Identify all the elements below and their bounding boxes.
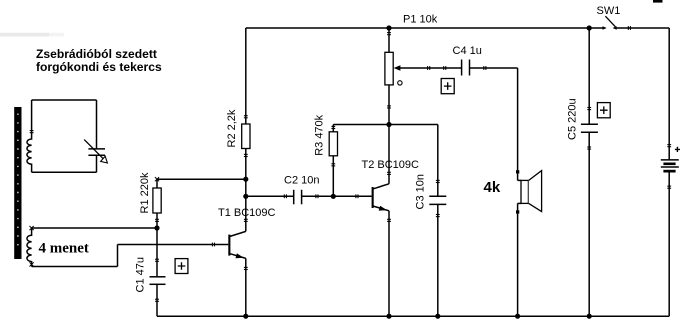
coil L2 (4 menet) [27,226,34,267]
faint scan artifact band [0,33,49,37]
svg-text:SW1: SW1 [597,5,621,17]
battery B1 [661,28,680,316]
svg-text:C1 47u: C1 47u [135,257,147,292]
polarity box C5 [597,103,610,118]
transistor T2 BC109C [333,125,391,317]
svg-text:C2 10n: C2 10n [284,175,319,187]
pin ticks T1 base [211,243,213,247]
potentiometer P1 10k [385,28,461,125]
node C5 / SW1 [587,25,592,30]
node R1 bottom / L2 / C1 [154,225,159,230]
resistor R2 2,2k [242,28,250,231]
node speaker / rail [515,314,520,319]
node T2 base / C2 / R3 [331,194,336,199]
capacitor C2 10n [246,190,333,205]
node collector/R1 [243,177,248,182]
node C3 / rail [435,314,440,319]
svg-text:C4 1u: C4 1u [453,45,482,57]
wire R1 top to collector line [157,178,246,180]
wire R3 top to node B [333,124,389,126]
svg-text:4k: 4k [484,179,501,196]
switch SW1 [589,16,669,30]
capacitor C3 10n [429,125,446,317]
svg-text:P1 10k: P1 10k [403,14,438,26]
svg-text:Zsebrádióból szedett: Zsebrádióból szedett [36,47,157,61]
svg-text:4 menet: 4 menet [39,241,89,257]
node P1 top [386,25,391,30]
svg-text:R3 470k: R3 470k [313,114,325,155]
wire top supply rail [246,27,589,29]
capacitor C5 220u [581,28,598,316]
svg-text:forgókondi és tekercs: forgókondi és tekercs [36,60,162,74]
svg-text:R2 2,2k: R2 2,2k [226,109,238,147]
wire L2 bottom step to T1 base [32,245,229,267]
svg-text:R1 220k: R1 220k [139,172,151,213]
wire tuned loop [32,100,97,172]
resistor R3 470k [329,125,337,197]
variable capacitor CV [84,140,107,163]
polarity box C4 [441,79,454,94]
svg-text:C5 220u: C5 220u [567,98,579,140]
ferrite rod antenna [14,107,21,259]
coil L1 (tuning coil) [27,100,34,172]
capacitor C1 47u [150,228,166,316]
wire C4 to speaker [517,68,519,180]
wire node B to C3 [389,124,438,126]
capacitor C4 1u [462,60,518,76]
node T1 emitter / rail [243,314,248,319]
svg-text:C3 10n: C3 10n [414,174,426,209]
node T2 emitter / rail [386,314,391,319]
speaker 4k [516,170,542,316]
transistor T1 BC109C [228,219,247,316]
stray black mark top right [653,0,663,3]
polarity box C1 [175,259,188,274]
node collector/C2 [243,194,248,199]
svg-text:T2 BC109C: T2 BC109C [362,159,420,171]
svg-text:T1 BC109C: T1 BC109C [218,207,276,219]
node C5 / rail [587,314,592,319]
node P1 bottom / T2 collector [386,122,391,127]
resistor R1 220k [153,177,161,228]
wire ground rail [157,315,669,317]
wire L2 top to node A [32,227,157,229]
